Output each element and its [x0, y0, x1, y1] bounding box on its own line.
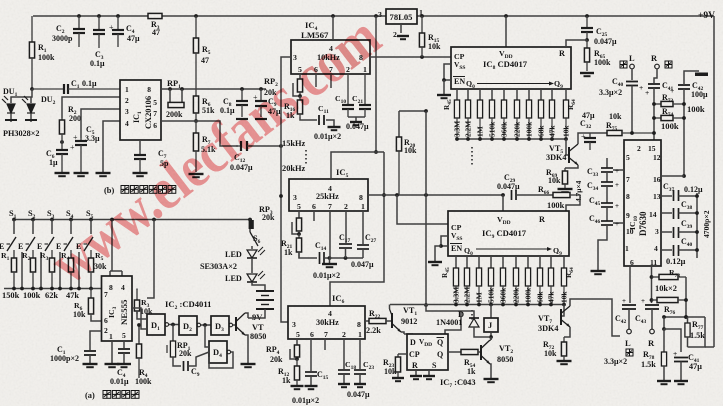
ground cap col: [591, 270, 606, 272]
node output R: [650, 329, 655, 334]
wire right +9V rail: [713, 16, 715, 347]
resistor R5: [195, 16, 197, 38]
wire 15kHz net: [249, 145, 281, 147]
ground under C11: [328, 126, 341, 128]
op-amp U1 CX20106 box: [120, 80, 161, 140]
resistor R73b: [652, 276, 660, 278]
capacitor C23: [359, 339, 361, 369]
wire CP feed IC9: [397, 195, 448, 224]
node top rail junctions: [77, 14, 81, 18]
resistor R23t: [398, 353, 407, 355]
capacitor C4t: [123, 341, 125, 348]
wire ladder2 stubs: [455, 256, 457, 268]
wire switch second columns: [21, 252, 23, 289]
wire IC10 pin11 down: [651, 266, 653, 303]
resistor R2: [62, 97, 120, 118]
op-amp U3 NE555 box: [102, 276, 133, 341]
wire IC8 q arrow: [477, 83, 549, 85]
transistor Q2 8050: [478, 351, 481, 353]
ground under C6: [55, 172, 70, 174]
op-amp D2 gate: [179, 316, 197, 335]
capacitor C42o: [622, 304, 636, 306]
resistor R3: [148, 13, 162, 18]
wire y258 node: [328, 256, 332, 260]
wire dotted ladder1: [471, 147, 473, 167]
ground under C1t: [83, 363, 98, 365]
resistor R12: [296, 359, 298, 366]
resistor R65: [586, 40, 588, 48]
wire C10 C21 bottoms: [348, 116, 365, 118]
resistor R7: [195, 121, 197, 133]
capacitor C40: [631, 69, 633, 81]
capacitor C12: [236, 145, 241, 147]
resistor R16: [299, 96, 301, 100]
relay J: [490, 305, 492, 319]
node diode-J junction: [489, 335, 493, 339]
wire pin6 to C12: [194, 119, 198, 123]
capacitor C25: [586, 16, 588, 28]
wire x426 vertical: [425, 111, 427, 305]
resistor R76: [652, 299, 658, 301]
resistor R21: [298, 234, 300, 238]
ground VT2: [484, 378, 499, 380]
wire cap col bottom: [598, 225, 607, 270]
wire LM567 pin6 stub: [315, 74, 317, 87]
capacitor C41t: [654, 69, 657, 84]
resistor R73: [654, 103, 661, 105]
resistor R4t 100k: [138, 325, 140, 342]
op-amp D4 gate: [209, 341, 227, 363]
transistor Q1 9012: [386, 320, 392, 322]
potentiometer RP1: [169, 89, 171, 103]
battery 9V: [256, 290, 274, 292]
wire VT1 emitter to IC7: [401, 332, 404, 334]
wire x154 feed: [147, 220, 154, 299]
wire D1-D2: [169, 324, 179, 326]
node right col junctions: [652, 102, 656, 106]
resistor R3t 10k: [136, 290, 138, 300]
node DU junction: [30, 87, 34, 91]
resistor ladder2 bodies: [453, 268, 458, 286]
op-amp D1 gate: [147, 314, 165, 335]
diode D 1N4001: [469, 317, 479, 319]
potentiometer RP3: [249, 220, 254, 229]
wire R77 loop: [688, 317, 706, 347]
capacitor C7: [139, 140, 141, 150]
wire capcol to IC10: [613, 169, 624, 171]
resistor R20: [398, 111, 400, 137]
photodiode DU1: [2, 96, 17, 122]
op-amp U9 CD4017 box: [448, 211, 569, 256]
ground under R78: [657, 380, 671, 382]
wire VT2 collector: [490, 339, 491, 341]
ground under R69: [558, 188, 573, 190]
potentiometer RP4: [296, 339, 298, 344]
wire y195 bus: [368, 194, 503, 196]
wire dotted ladder2: [471, 310, 473, 322]
capacitor C29: [511, 190, 513, 200]
wire Qbar link: [445, 311, 461, 334]
ground pin4: [96, 172, 111, 174]
wire C25 to R pin: [585, 38, 589, 42]
capacitor C14: [299, 252, 317, 258]
wire y111 link: [399, 110, 426, 112]
ground under R23t: [392, 377, 404, 379]
resistor R74: [654, 117, 661, 119]
wire IC5 pin6 stub: [313, 211, 315, 221]
capacitor C42t 100u: [678, 84, 690, 86]
capacitor C43o: [645, 304, 659, 306]
wire ladder2 bottom rail: [390, 304, 564, 306]
wire x384 vertical: [330, 152, 384, 306]
node output L: [627, 329, 632, 334]
ground IC8 en: [437, 94, 451, 96]
wire LM567 pin8 to R15: [370, 56, 451, 58]
wire vertical x376: [375, 16, 377, 152]
capacitor C2: [78, 16, 80, 29]
capacitor C6: [60, 140, 64, 144]
wire dotted continuation: [305, 150, 307, 164]
watermark www.elecfans.com: [38, 3, 392, 296]
resistor R1: [31, 16, 33, 42]
capacitor C32: [589, 133, 591, 138]
transistor Q VT 8050: [235, 317, 237, 331]
potentiometer RP2 trim: [299, 74, 301, 78]
op-amp U5 25kHz box: [289, 179, 368, 211]
wire IC6 pin7 stub: [324, 339, 326, 350]
wire R10k to pin6: [91, 316, 101, 321]
op-amp U8 CD4017 box: [451, 47, 571, 89]
wire Q loop: [426, 305, 474, 318]
ground under C18: [338, 383, 350, 385]
resistor R69: [565, 165, 578, 168]
wire S6 chain top: [249, 220, 251, 233]
resistor R15: [421, 16, 423, 33]
resistor R10k: [90, 289, 92, 299]
wire NE555 pin1 gnd: [111, 341, 113, 363]
wire ladder1 stubs: [456, 89, 458, 100]
wire IC9 vss-en tie: [441, 236, 448, 246]
wire cap bus: [696, 193, 698, 258]
potentiometer RP1t 20k: [172, 325, 174, 342]
wire D3 to VT: [233, 324, 236, 326]
ground IC7 R S: [415, 370, 417, 375]
wire VT2 emitter: [490, 364, 491, 378]
ground under C15: [305, 385, 318, 387]
ground under C41o: [674, 380, 688, 382]
wire LM567 pin3 bus: [281, 57, 291, 322]
wire D2-D3: [201, 324, 211, 326]
ground under C4t: [117, 363, 131, 365]
ground VT emitter: [241, 363, 256, 365]
ground IC9 en: [428, 261, 442, 263]
diode LED2: [247, 274, 257, 282]
capacitor C1t 1000p: [90, 331, 102, 350]
wire R66 to R pin: [566, 195, 580, 211]
node S6 switch: [250, 232, 258, 246]
node input L: [620, 61, 627, 68]
wire LM567 vdd: [332, 16, 334, 40]
wire NE555 vdd: [111, 220, 113, 272]
ground under R12: [291, 385, 304, 387]
op-amp U4 LM567 box: [291, 40, 370, 74]
wire LM567 pin7 stub: [330, 74, 332, 88]
wire IC9 q arrow: [476, 248, 547, 250]
photodiode DU2: [22, 96, 37, 122]
diode LED1: [247, 250, 257, 258]
capacitor C8: [241, 89, 243, 101]
wire ladder1 bottom rail: [457, 138, 566, 140]
op-amp U7 C043 box: [407, 334, 448, 370]
regulator 78L05: [386, 9, 417, 24]
resistor R77: [687, 317, 689, 323]
capacitor C41o: [664, 329, 681, 352]
capacitor C1 input coupling: [32, 88, 64, 90]
op-amp D3 gate: [211, 316, 229, 335]
resistor R72: [564, 327, 570, 337]
ground NE555 pin1: [105, 363, 120, 365]
ground under R65: [580, 72, 594, 74]
wire D7630 pin16: [661, 175, 684, 177]
wire IC10 pin6 down: [629, 266, 631, 303]
wire VT5 collector: [578, 133, 607, 144]
capacitor C15: [310, 339, 312, 371]
potentiometer RP trim IC5: [298, 211, 300, 217]
wire IC5 pin7 down: [329, 211, 331, 258]
capacitor C27: [362, 211, 364, 244]
wire IC8 vdd stub: [505, 16, 507, 47]
capacitor C11: [300, 117, 317, 120]
ground y258: [322, 263, 337, 265]
wire switch arms E: [13, 220, 15, 235]
ground under C23: [354, 383, 366, 385]
ground 78L05 pin2: [400, 24, 402, 33]
wire VT7 collector: [570, 299, 620, 336]
resistor R54: [448, 351, 461, 353]
capacitor C5: [81, 109, 120, 138]
capacitor C3: [98, 16, 100, 30]
op-amp U6 30kHz box: [288, 306, 365, 339]
wire top +9V rail: [33, 15, 148, 17]
wire IC8 vss-en tie: [444, 64, 451, 80]
resistor ladder1 bodies R45-R64: [454, 100, 459, 118]
capacitor C17: [345, 211, 347, 243]
transistor Q5 3DK4: [566, 139, 569, 155]
wire IC5 pin4 feed: [331, 152, 384, 179]
wire switch rail: [14, 219, 252, 221]
capacitor C9t: [173, 357, 181, 366]
resistor switch resistors: [13, 250, 15, 258]
resistor R6: [195, 89, 197, 96]
wire DU branch: [11, 89, 32, 103]
capacitor C9 47u: [260, 89, 262, 101]
resistor R78: [663, 329, 665, 352]
op-amp U10 D7630 box: [624, 140, 661, 266]
ground under R72: [557, 360, 572, 362]
node output chu label: [626, 349, 633, 356]
ground under R7: [189, 173, 204, 175]
resistor R22: [365, 320, 369, 322]
wire bottom switch rail: [4, 288, 101, 290]
transistor Q7 3DK4: [561, 305, 564, 317]
capacitor C4: [117, 16, 119, 30]
wire D4 feedback: [205, 325, 209, 347]
resistor R66: [553, 192, 570, 197]
wire R77 net: [664, 316, 705, 318]
wire IC1 pin4: [103, 121, 120, 172]
capacitor C10: [347, 74, 349, 105]
capacitor C21: [364, 74, 366, 105]
ground under C7: [133, 172, 148, 174]
wire pin8 net: [161, 88, 266, 90]
capacitor C18: [343, 339, 345, 369]
wire D1 inputs: [137, 311, 147, 319]
wire x686 vertical: [685, 277, 687, 317]
ground under C5: [74, 172, 89, 174]
wire IC9 vdd stub: [502, 195, 504, 211]
